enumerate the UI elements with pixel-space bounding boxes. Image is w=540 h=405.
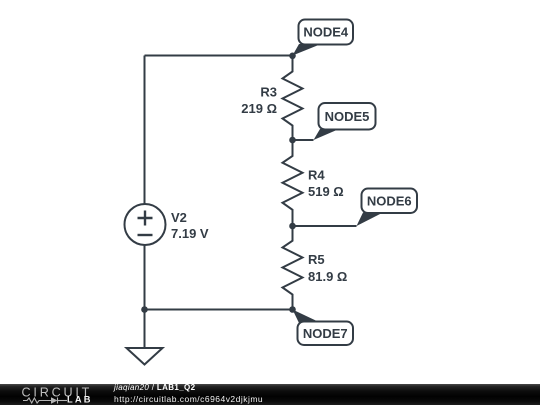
svg-text:LAB: LAB <box>67 394 93 404</box>
svg-text:519 Ω: 519 Ω <box>308 184 344 199</box>
svg-text:R5: R5 <box>308 252 325 267</box>
svg-text:NODE6: NODE6 <box>367 193 412 208</box>
svg-text:219 Ω: 219 Ω <box>241 101 277 116</box>
svg-text:7.19 V: 7.19 V <box>171 226 209 241</box>
svg-text:81.9 Ω: 81.9 Ω <box>308 269 347 284</box>
svg-text:R3: R3 <box>260 85 277 100</box>
svg-text:NODE7: NODE7 <box>303 326 348 341</box>
svg-text:NODE4: NODE4 <box>303 25 349 40</box>
svg-text:V2: V2 <box>171 210 187 225</box>
svg-text:R4: R4 <box>308 168 325 183</box>
svg-text:NODE5: NODE5 <box>325 109 370 124</box>
